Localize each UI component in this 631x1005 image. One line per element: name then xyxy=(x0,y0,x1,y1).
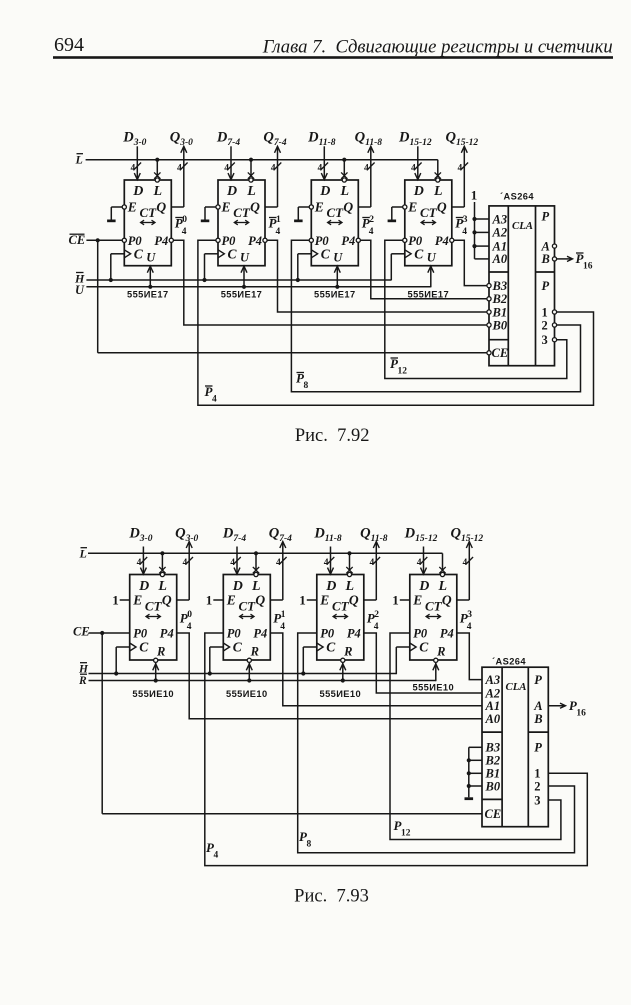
AS264 section divider B/CE left column xyxy=(489,339,508,341)
wire P4 of chip 3 to B2 input xyxy=(360,240,487,298)
svg-text:555ИЕ10: 555ИЕ10 xyxy=(132,689,174,699)
svg-text:2: 2 xyxy=(369,215,374,225)
counter chip 4 555IE17 xyxy=(388,146,469,287)
svg-text:8: 8 xyxy=(307,840,312,850)
AS264 section divider A/B left column xyxy=(482,731,502,733)
wire AS264 output 3 wrap to P0 of chip 4 xyxy=(390,633,561,840)
wire U rail xyxy=(86,286,430,288)
wire H rail xyxy=(89,673,397,675)
svg-text:694: 694 xyxy=(54,34,84,56)
wire const-1 stub to A2 xyxy=(475,231,490,233)
wire AS264 output 3 wrap to P0 of chip 4 xyxy=(385,240,567,378)
svg-text:A0: A0 xyxy=(492,252,508,266)
ground bar for B tie xyxy=(465,797,474,800)
wire const-1 stub to A1 xyxy=(475,245,490,247)
pin output 2 inversion circle xyxy=(552,323,556,327)
svg-text:3: 3 xyxy=(467,610,472,620)
node H junction chip 1 xyxy=(109,278,113,282)
wire P4 of chip 3 to A2 input xyxy=(364,633,482,693)
svg-text:1: 1 xyxy=(281,610,286,620)
svg-text:555ИЕ10: 555ИЕ10 xyxy=(413,683,455,693)
svg-text:2: 2 xyxy=(534,779,540,793)
pin B1 inversion circle xyxy=(487,310,491,314)
wire AS264 output 2 wrap to P0 of chip 3 xyxy=(298,633,575,853)
node const-1 junction xyxy=(472,230,476,234)
node H junction chip 2 xyxy=(202,278,206,282)
node L junction chip 2 xyxy=(254,551,258,555)
svg-text:CE: CE xyxy=(492,346,509,360)
svg-text:D15-12: D15-12 xyxy=(398,130,432,149)
node L junction chip 3 xyxy=(347,551,351,555)
AS264 internal divider right xyxy=(527,667,529,827)
svg-text:Глава 7. Сдвигающие регистры: Глава 7. Сдвигающие регистры и счетчики xyxy=(262,36,613,57)
node const-1 junction xyxy=(472,244,476,248)
node tie junction xyxy=(467,771,471,775)
svg-text:A0: A0 xyxy=(485,712,501,726)
svg-text:CLA: CLA xyxy=(512,220,533,232)
pin A inversion circle xyxy=(552,244,556,248)
wire const-1 stub to A0 xyxy=(475,258,490,260)
svg-text:D7-4: D7-4 xyxy=(216,130,240,149)
svg-text:B0: B0 xyxy=(492,318,508,332)
svg-text:A3: A3 xyxy=(492,212,508,226)
output arrow P-bar-16 xyxy=(557,258,572,260)
wire H rail xyxy=(86,279,391,281)
svg-text:´AS264: ´AS264 xyxy=(492,657,526,667)
svg-text:555ИЕ17: 555ИЕ17 xyxy=(127,290,169,300)
pin B3 inversion circle xyxy=(487,284,491,288)
wire P4 of chip 4 to B3 input xyxy=(454,240,487,285)
svg-text:R: R xyxy=(78,675,87,687)
svg-text:B1: B1 xyxy=(492,305,508,319)
svg-text:0: 0 xyxy=(182,215,187,225)
svg-text:Рис. 7.93: Рис. 7.93 xyxy=(294,887,369,907)
AS264 section divider right column xyxy=(528,731,548,733)
svg-text:L: L xyxy=(79,547,87,561)
svg-text:Q11-8: Q11-8 xyxy=(360,526,388,545)
svg-text:A2: A2 xyxy=(492,226,508,240)
wire CE rail to P0 of chip 1 xyxy=(89,632,130,634)
svg-text:4: 4 xyxy=(182,227,187,237)
svg-text:2: 2 xyxy=(542,318,548,332)
wire AS264 output 1 wrap to P0 of chip 2 xyxy=(198,240,594,405)
svg-text:P: P xyxy=(542,279,550,293)
svg-text:4: 4 xyxy=(369,227,374,237)
svg-text:4: 4 xyxy=(280,622,285,632)
svg-text:4: 4 xyxy=(462,227,467,237)
svg-text:Q15-12: Q15-12 xyxy=(450,526,483,545)
svg-text:555ИЕ10: 555ИЕ10 xyxy=(226,689,268,699)
node L junction chip 2 xyxy=(249,158,253,162)
node const-1 junction xyxy=(472,217,476,221)
node L junction chip 1 xyxy=(160,551,164,555)
svg-text:CE: CE xyxy=(485,807,502,821)
wire P4 of chip 4 to A3 input xyxy=(457,633,482,680)
svg-text:Q15-12: Q15-12 xyxy=(445,130,478,149)
carry-lookahead unit 'AS264 box (fig 7.93) xyxy=(482,667,548,827)
wire CE down-feed to AS264 xyxy=(97,240,99,352)
svg-text:B2: B2 xyxy=(485,754,501,768)
AS264 internal divider left xyxy=(501,667,503,827)
node tie junction xyxy=(467,758,471,762)
wire L-bar rail xyxy=(86,159,438,161)
svg-text:Q7-4: Q7-4 xyxy=(263,130,286,149)
wire AS264 output 2 wrap to P0 of chip 3 xyxy=(291,240,580,391)
svg-text:P: P xyxy=(542,210,550,224)
svg-text:P: P xyxy=(534,741,542,755)
wire tie stub to B1 xyxy=(469,772,482,774)
AS264 section divider B/CE left column xyxy=(482,798,502,800)
svg-text:0: 0 xyxy=(187,610,192,620)
svg-text:Q11-8: Q11-8 xyxy=(355,130,383,149)
svg-text:D3-0: D3-0 xyxy=(128,526,152,545)
wire P4 of chip 2 to A1 input xyxy=(270,633,482,706)
pin B2 inversion circle xyxy=(487,297,491,301)
node H junction chip 2 xyxy=(208,671,212,675)
wire P4 of chip 1 to A0 input xyxy=(177,633,482,719)
svg-text:4: 4 xyxy=(214,851,219,861)
wire const-1 stub to A3 xyxy=(475,218,490,220)
node U junction chip 3 xyxy=(335,285,339,289)
wire P4 of chip 1 to B0 input xyxy=(173,240,487,325)
svg-text:CE: CE xyxy=(73,625,90,639)
svg-text:Рис. 7.92: Рис. 7.92 xyxy=(295,426,370,446)
svg-text:A: A xyxy=(533,699,542,713)
svg-text:3: 3 xyxy=(542,333,548,347)
node R junction chip 3 xyxy=(341,678,345,682)
svg-text:CLA: CLA xyxy=(506,681,527,693)
node H junction chip 3 xyxy=(296,278,300,282)
svg-text:P: P xyxy=(534,673,542,687)
svg-text:D11-8: D11-8 xyxy=(307,130,336,149)
counter chip 2 555IE17 xyxy=(201,146,282,287)
svg-text:Q3-0: Q3-0 xyxy=(175,526,198,545)
node H junction chip 3 xyxy=(301,671,305,675)
svg-text:555ИЕ17: 555ИЕ17 xyxy=(221,290,263,300)
svg-text:A1: A1 xyxy=(485,699,501,713)
svg-text:3: 3 xyxy=(463,215,468,225)
svg-text:555ИЕ17: 555ИЕ17 xyxy=(314,290,356,300)
svg-text:4: 4 xyxy=(374,622,379,632)
svg-text:Q3-0: Q3-0 xyxy=(170,130,193,149)
wire P4 of chip 2 to B1 input xyxy=(267,240,487,312)
pin B0 inversion circle xyxy=(487,323,491,327)
svg-text:B3: B3 xyxy=(485,741,501,755)
svg-text:12: 12 xyxy=(401,829,411,839)
svg-text:D11-8: D11-8 xyxy=(313,526,342,545)
svg-text:2: 2 xyxy=(374,610,379,620)
op-amp — carry-lookahead unit U5 'AS264 box xyxy=(489,206,555,366)
AS264 internal divider left xyxy=(507,206,509,366)
svg-text:555ИЕ10: 555ИЕ10 xyxy=(320,689,362,699)
wire CE rail to P0 of chip 1 xyxy=(86,239,122,241)
node CE junction xyxy=(100,631,104,635)
counter chip 1 555IE17 xyxy=(107,146,188,287)
output arrow P16 xyxy=(548,705,565,707)
svg-text:L: L xyxy=(75,153,83,167)
node L junction chip 1 xyxy=(155,158,159,162)
page header rule xyxy=(53,56,613,59)
counter chip 4 555IE10 xyxy=(392,542,473,682)
node R junction chip 2 xyxy=(247,678,251,682)
wire tie stub to B2 xyxy=(469,759,482,761)
wire tie stub to B3 xyxy=(469,746,482,748)
svg-text:´AS264: ´AS264 xyxy=(500,192,534,202)
svg-text:B3: B3 xyxy=(492,279,508,293)
svg-text:D3-0: D3-0 xyxy=(122,130,146,149)
svg-text:4: 4 xyxy=(467,622,472,632)
wire CE down-feed to AS264 xyxy=(101,633,103,814)
svg-text:1: 1 xyxy=(276,215,281,225)
svg-text:8: 8 xyxy=(304,381,309,391)
svg-text:16: 16 xyxy=(576,709,586,719)
pin output 1 inversion circle xyxy=(552,310,556,314)
counter chip 2 555IE10 xyxy=(206,542,287,682)
svg-text:A3: A3 xyxy=(485,673,501,687)
pin output 3 inversion circle xyxy=(552,338,556,342)
pin CE inversion circle xyxy=(487,351,491,355)
AS264 section divider right column xyxy=(536,271,555,273)
B inputs tied low: vertical tie xyxy=(468,747,470,797)
wire R rail xyxy=(89,680,436,682)
node L junction chip 3 xyxy=(342,158,346,162)
pin B inversion circle xyxy=(552,257,556,261)
counter chip 3 555IE17 xyxy=(294,146,375,287)
node R junction chip 1 xyxy=(154,678,158,682)
wire L-bar rail xyxy=(88,552,443,554)
node tie junction xyxy=(467,784,471,788)
wire tie stub to B0 xyxy=(469,785,482,787)
svg-text:CE: CE xyxy=(69,233,86,247)
svg-text:4: 4 xyxy=(187,622,192,632)
svg-text:D7-4: D7-4 xyxy=(222,526,246,545)
counter chip 1 555IE10 xyxy=(112,542,193,682)
node H junction chip 1 xyxy=(114,671,118,675)
svg-text:1: 1 xyxy=(471,188,478,203)
svg-text:12: 12 xyxy=(398,367,408,377)
AS264 section divider A/B left column xyxy=(489,271,508,273)
node CE junction xyxy=(96,238,100,242)
counter chip 3 555IE10 xyxy=(299,542,380,682)
svg-text:4: 4 xyxy=(212,395,217,405)
AS264 internal divider right xyxy=(535,206,537,366)
svg-text:Q7-4: Q7-4 xyxy=(269,526,292,545)
svg-text:1: 1 xyxy=(542,305,548,319)
node U junction chip 1 xyxy=(148,285,152,289)
svg-text:4: 4 xyxy=(276,227,281,237)
wire AS264 output 1 wrap to P0 of chip 2 xyxy=(205,633,588,866)
node U junction chip 2 xyxy=(242,285,246,289)
svg-text:B2: B2 xyxy=(492,292,508,306)
svg-text:B0: B0 xyxy=(485,779,501,793)
svg-text:D15-12: D15-12 xyxy=(404,526,438,545)
svg-text:B: B xyxy=(533,712,542,726)
svg-text:U: U xyxy=(75,283,85,297)
svg-text:B: B xyxy=(541,252,550,266)
svg-text:3: 3 xyxy=(534,793,540,807)
svg-text:16: 16 xyxy=(583,262,593,272)
